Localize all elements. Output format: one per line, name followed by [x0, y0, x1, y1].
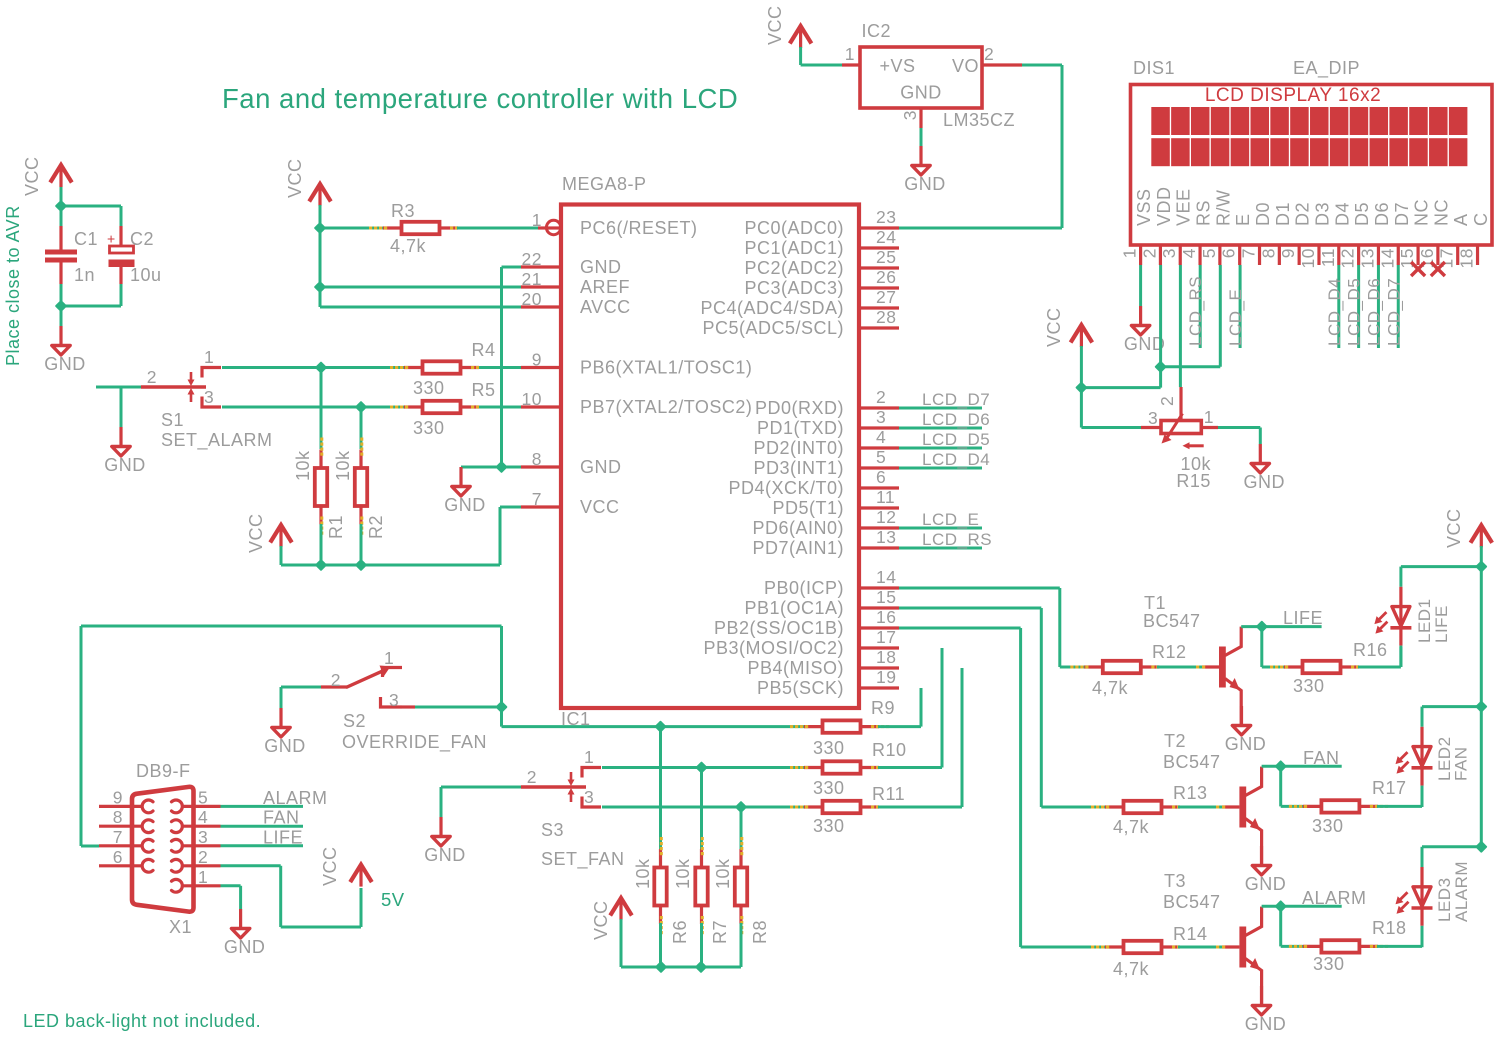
svg-text:1: 1: [204, 347, 214, 367]
svg-text:R16: R16: [1353, 640, 1388, 660]
svg-text:NC: NC: [1431, 199, 1451, 226]
svg-text:LCD_E: LCD_E: [1226, 289, 1245, 346]
svg-text:VSS: VSS: [1134, 188, 1154, 226]
svg-text:16: 16: [876, 607, 896, 627]
svg-text:LCD_D7: LCD_D7: [922, 390, 990, 409]
svg-text:6: 6: [113, 847, 123, 867]
svg-text:GND: GND: [1245, 1014, 1287, 1034]
svg-text:3: 3: [389, 690, 399, 710]
svg-text:VDD: VDD: [1154, 186, 1174, 226]
svg-text:BC547: BC547: [1163, 752, 1221, 772]
svg-text:LCD_D5: LCD_D5: [1345, 278, 1364, 346]
svg-text:3: 3: [584, 787, 594, 807]
svg-text:4,7k: 4,7k: [390, 236, 427, 256]
svg-text:3: 3: [900, 110, 920, 120]
svg-text:R11: R11: [872, 784, 905, 804]
svg-text:13: 13: [1357, 248, 1377, 268]
svg-text:R18: R18: [1372, 918, 1407, 938]
svg-text:14: 14: [1377, 248, 1397, 268]
svg-text:C2: C2: [130, 229, 154, 249]
svg-text:2: 2: [1139, 248, 1159, 258]
svg-text:1: 1: [584, 747, 594, 767]
svg-text:PB3(MOSI/OC2): PB3(MOSI/OC2): [703, 638, 844, 658]
svg-text:2: 2: [147, 367, 157, 387]
svg-text:9: 9: [113, 787, 123, 807]
svg-text:VCC: VCC: [580, 497, 620, 517]
svg-text:PB6(XTAL1/TOSC1): PB6(XTAL1/TOSC1): [580, 358, 752, 378]
svg-text:6: 6: [1219, 248, 1239, 258]
svg-text:GND: GND: [904, 174, 946, 194]
svg-text:GND: GND: [900, 83, 942, 103]
svg-text:7: 7: [1239, 248, 1259, 258]
svg-text:PD0(RXD): PD0(RXD): [755, 398, 844, 418]
svg-text:R1: R1: [326, 515, 346, 539]
svg-text:PC3(ADC3): PC3(ADC3): [744, 278, 844, 298]
svg-text:S3: S3: [541, 820, 564, 840]
svg-text:24: 24: [876, 227, 896, 247]
svg-text:C1: C1: [74, 229, 98, 249]
svg-text:ALARM: ALARM: [1452, 861, 1471, 922]
svg-text:T3: T3: [1164, 871, 1186, 891]
svg-text:S1: S1: [161, 410, 184, 430]
svg-text:GND: GND: [580, 457, 622, 477]
svg-text:D3: D3: [1312, 202, 1332, 226]
svg-text:7: 7: [532, 489, 542, 509]
svg-text:2: 2: [984, 44, 994, 64]
svg-text:VCC: VCC: [22, 156, 42, 196]
svg-text:4,7k: 4,7k: [1113, 817, 1150, 837]
svg-text:LCD_D4: LCD_D4: [1325, 278, 1344, 346]
svg-text:330: 330: [813, 778, 845, 798]
svg-text:PD7(AIN1): PD7(AIN1): [752, 538, 844, 558]
svg-text:4: 4: [1179, 248, 1199, 258]
svg-text:PB4(MISO): PB4(MISO): [747, 658, 844, 678]
svg-text:E: E: [1233, 213, 1253, 226]
svg-text:DIS1: DIS1: [1133, 58, 1175, 78]
svg-text:PC2(ADC2): PC2(ADC2): [744, 258, 844, 278]
svg-text:1: 1: [1204, 407, 1214, 427]
svg-text:PB5(SCK): PB5(SCK): [757, 678, 844, 698]
svg-text:FAN: FAN: [1303, 748, 1340, 768]
svg-text:2: 2: [876, 387, 886, 407]
svg-text:8: 8: [113, 807, 123, 827]
svg-text:12: 12: [1338, 248, 1358, 268]
svg-text:20: 20: [522, 289, 542, 309]
svg-text:12: 12: [876, 507, 896, 527]
svg-text:18: 18: [1457, 248, 1477, 268]
svg-text:11: 11: [1318, 248, 1338, 267]
svg-text:D5: D5: [1352, 202, 1372, 226]
svg-text:25: 25: [876, 247, 896, 267]
svg-text:10k: 10k: [673, 858, 693, 889]
svg-text:3: 3: [1148, 408, 1158, 428]
svg-text:VO: VO: [952, 56, 979, 76]
svg-text:PB7(XTAL2/TOSC2): PB7(XTAL2/TOSC2): [580, 397, 752, 417]
svg-text:NC: NC: [1412, 199, 1432, 226]
svg-text:1: 1: [198, 867, 208, 887]
svg-text:SET_FAN: SET_FAN: [541, 849, 625, 870]
svg-text:330: 330: [813, 816, 845, 836]
svg-text:LCD_RS: LCD_RS: [922, 530, 992, 549]
svg-text:330: 330: [1313, 954, 1345, 974]
svg-text:9: 9: [532, 350, 542, 370]
svg-text:GND: GND: [1225, 734, 1267, 754]
svg-text:LCD_D6: LCD_D6: [1364, 278, 1383, 346]
svg-text:A: A: [1451, 213, 1471, 226]
svg-text:4: 4: [198, 807, 208, 827]
svg-text:13: 13: [876, 527, 896, 547]
svg-text:GND: GND: [104, 455, 146, 475]
svg-text:R12: R12: [1152, 642, 1187, 662]
svg-text:FAN: FAN: [1452, 746, 1471, 781]
svg-text:7: 7: [113, 827, 123, 847]
svg-text:26: 26: [876, 267, 896, 287]
svg-text:R5: R5: [472, 380, 496, 400]
svg-text:+VS: +VS: [880, 56, 916, 76]
svg-text:MEGA8-P: MEGA8-P: [562, 174, 647, 194]
svg-text:27: 27: [876, 287, 896, 307]
svg-text:VCC: VCC: [765, 5, 785, 45]
svg-text:10: 10: [1298, 248, 1318, 268]
svg-text:PD4(XCK/T0): PD4(XCK/T0): [728, 478, 844, 498]
svg-text:R3: R3: [391, 201, 415, 221]
svg-text:BC547: BC547: [1163, 892, 1221, 912]
svg-text:330: 330: [1293, 676, 1325, 696]
svg-text:8: 8: [532, 449, 542, 469]
svg-text:R15: R15: [1176, 471, 1211, 491]
svg-text:AVCC: AVCC: [580, 297, 631, 317]
svg-text:2: 2: [198, 847, 208, 867]
svg-text:VEE: VEE: [1174, 188, 1194, 226]
svg-text:5: 5: [1199, 248, 1219, 258]
svg-text:21: 21: [522, 269, 542, 289]
svg-text:VCC: VCC: [320, 846, 340, 886]
svg-text:LIFE: LIFE: [1432, 605, 1451, 643]
svg-text:VCC: VCC: [1044, 307, 1064, 347]
svg-text:17: 17: [876, 627, 896, 647]
svg-text:PD3(INT1): PD3(INT1): [753, 458, 844, 478]
svg-text:R9: R9: [871, 698, 895, 718]
svg-text:10u: 10u: [130, 265, 162, 285]
svg-text:R10: R10: [872, 740, 907, 760]
svg-text:D2: D2: [1293, 202, 1313, 226]
svg-text:22: 22: [522, 249, 542, 269]
svg-text:GND: GND: [264, 736, 306, 756]
svg-text:GND: GND: [580, 257, 622, 277]
svg-text:ALARM: ALARM: [1302, 888, 1367, 908]
svg-text:T1: T1: [1144, 593, 1166, 613]
svg-text:2: 2: [331, 670, 341, 690]
svg-text:10k: 10k: [713, 858, 733, 889]
svg-text:3: 3: [198, 827, 208, 847]
svg-text:LCD_D4: LCD_D4: [922, 450, 990, 469]
svg-text:15: 15: [876, 587, 896, 607]
svg-text:1: 1: [532, 210, 542, 230]
svg-text:D6: D6: [1372, 202, 1392, 226]
svg-text:R13: R13: [1173, 783, 1208, 803]
svg-text:D4: D4: [1332, 202, 1352, 226]
svg-text:4,7k: 4,7k: [1092, 678, 1129, 698]
svg-text:11: 11: [876, 487, 895, 507]
svg-text:C: C: [1471, 213, 1491, 227]
svg-text:10k: 10k: [633, 858, 653, 889]
svg-text:2: 2: [1157, 396, 1177, 406]
svg-text:9: 9: [1278, 248, 1298, 258]
svg-text:AREF: AREF: [580, 277, 630, 297]
svg-text:R14: R14: [1173, 924, 1208, 944]
svg-text:Place close to AVR: Place close to AVR: [3, 205, 23, 366]
svg-text:10k: 10k: [333, 450, 353, 481]
svg-text:GND: GND: [444, 495, 486, 515]
svg-text:R6: R6: [670, 920, 690, 944]
svg-text:FAN: FAN: [263, 808, 300, 828]
svg-text:Fan and temperature controller: Fan and temperature controller with LCD: [222, 83, 738, 114]
svg-text:330: 330: [413, 378, 445, 398]
svg-text:2: 2: [527, 767, 537, 787]
svg-text:PC4(ADC4/SDA): PC4(ADC4/SDA): [700, 298, 844, 318]
svg-text:R7: R7: [710, 920, 730, 944]
svg-text:SET_ALARM: SET_ALARM: [161, 430, 273, 451]
svg-text:3: 3: [1159, 248, 1179, 258]
svg-text:PD5(T1): PD5(T1): [772, 498, 844, 518]
svg-text:R2: R2: [366, 515, 386, 539]
svg-text:LCD_D6: LCD_D6: [922, 410, 990, 429]
svg-text:PB1(OC1A): PB1(OC1A): [744, 598, 844, 618]
svg-text:LED back-light not included.: LED back-light not included.: [23, 1011, 261, 1031]
svg-text:R/W: R/W: [1213, 190, 1233, 227]
svg-text:1: 1: [845, 44, 855, 64]
svg-text:GND: GND: [424, 845, 466, 865]
svg-text:LIFE: LIFE: [263, 827, 303, 847]
svg-text:PC6(/RESET): PC6(/RESET): [580, 218, 698, 238]
svg-text:18: 18: [876, 647, 896, 667]
svg-text:23: 23: [876, 207, 896, 227]
svg-text:LCD_D5: LCD_D5: [922, 430, 990, 449]
svg-text:R4: R4: [472, 340, 496, 360]
svg-text:1: 1: [1120, 248, 1140, 258]
svg-text:GND: GND: [1244, 472, 1286, 492]
svg-text:19: 19: [876, 667, 896, 687]
svg-text:BC547: BC547: [1143, 611, 1201, 631]
svg-text:1n: 1n: [74, 265, 95, 285]
svg-text:D0: D0: [1253, 202, 1273, 226]
svg-text:6: 6: [876, 467, 886, 487]
svg-text:28: 28: [876, 307, 896, 327]
svg-text:5: 5: [876, 447, 886, 467]
svg-text:330: 330: [813, 738, 845, 758]
svg-text:GND: GND: [224, 937, 266, 957]
svg-text:PD2(INT0): PD2(INT0): [753, 438, 844, 458]
svg-text:3: 3: [204, 387, 214, 407]
svg-text:R17: R17: [1372, 778, 1407, 798]
svg-text:LIFE: LIFE: [1283, 608, 1323, 628]
svg-text:GND: GND: [44, 354, 86, 374]
svg-text:LCD_RS: LCD_RS: [1186, 276, 1205, 346]
svg-text:PC1(ADC1): PC1(ADC1): [744, 238, 844, 258]
svg-text:IC2: IC2: [862, 21, 892, 41]
svg-text:VCC: VCC: [591, 900, 611, 940]
svg-text:PC5(ADC5/SCL): PC5(ADC5/SCL): [702, 318, 844, 338]
svg-text:RS: RS: [1194, 200, 1214, 226]
svg-text:3: 3: [876, 407, 886, 427]
svg-text:1: 1: [384, 648, 394, 668]
svg-text:GND: GND: [1245, 874, 1287, 894]
svg-text:10: 10: [522, 389, 542, 409]
svg-text:330: 330: [1312, 816, 1344, 836]
svg-text:ALARM: ALARM: [263, 788, 328, 808]
svg-text:S2: S2: [343, 711, 366, 731]
svg-text:PB0(ICP): PB0(ICP): [764, 578, 844, 598]
svg-text:D7: D7: [1392, 202, 1412, 226]
svg-text:+: +: [107, 231, 116, 247]
svg-text:8: 8: [1258, 248, 1278, 258]
svg-text:EA_DIP: EA_DIP: [1293, 58, 1360, 79]
svg-text:4: 4: [876, 427, 886, 447]
svg-text:LCD_D7: LCD_D7: [1384, 278, 1403, 346]
svg-text:LCD_E: LCD_E: [922, 510, 979, 529]
svg-text:PD1(TXD): PD1(TXD): [757, 418, 844, 438]
svg-text:PC0(ADC0): PC0(ADC0): [744, 218, 844, 238]
svg-text:VCC: VCC: [1444, 508, 1464, 548]
svg-text:R8: R8: [750, 920, 770, 944]
svg-text:LM35CZ: LM35CZ: [943, 110, 1015, 130]
svg-text:10k: 10k: [293, 450, 313, 481]
svg-text:14: 14: [876, 567, 896, 587]
svg-text:D1: D1: [1273, 202, 1293, 226]
svg-text:VCC: VCC: [246, 513, 266, 553]
svg-text:VCC: VCC: [285, 158, 305, 198]
svg-text:5V: 5V: [381, 889, 405, 910]
svg-text:OVERRIDE_FAN: OVERRIDE_FAN: [342, 732, 487, 753]
svg-text:LCD DISPLAY 16x2: LCD DISPLAY 16x2: [1205, 85, 1381, 106]
svg-text:5: 5: [198, 787, 208, 807]
svg-text:PD6(AIN0): PD6(AIN0): [752, 518, 844, 538]
svg-text:DB9-F: DB9-F: [136, 761, 191, 781]
svg-text:X1: X1: [169, 917, 192, 937]
svg-text:T2: T2: [1164, 731, 1186, 751]
svg-text:PB2(SS/OC1B): PB2(SS/OC1B): [714, 618, 844, 638]
svg-text:4,7k: 4,7k: [1113, 959, 1150, 979]
svg-text:330: 330: [413, 418, 445, 438]
